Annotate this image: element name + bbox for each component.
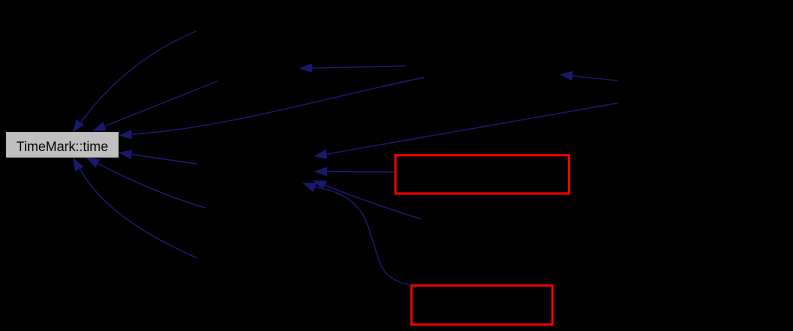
edge: caller C -> TimeMark::time (long upper diagonal) [119, 78, 425, 140]
red box 2 (truncated caller node) [412, 286, 553, 325]
red box 1 (truncated caller node) [396, 155, 570, 193]
edge: caller I -> hidden node X (long diagonal) [314, 103, 619, 159]
edge: caller curve A -> TimeMark::time (top-left curve) [73, 31, 197, 133]
edge: caller B -> TimeMark::time [93, 81, 219, 131]
edge: caller F -> TimeMark::time (lower curve 2) [73, 158, 197, 259]
edge: caller D -> TimeMark::time (short right arrow) [119, 150, 198, 164]
edge: caller E -> TimeMark::time (lower curve 1) [86, 158, 206, 209]
edge: caller I -> hidden node J (upper right short arrow) [559, 71, 617, 81]
edge: red box 2 -> hidden node X (S curve) [303, 183, 411, 285]
edge: caller G -> hidden node H (middle horizontal arrow) [299, 63, 406, 73]
node TimeMark::time (gray box) [6, 132, 119, 158]
edge: caller K -> hidden node X (short diagonal) [313, 181, 422, 220]
edge: red box 1 -> hidden node X (short horizontal) [314, 167, 395, 176]
svg-text:TimeMark::time: TimeMark::time [16, 139, 108, 154]
